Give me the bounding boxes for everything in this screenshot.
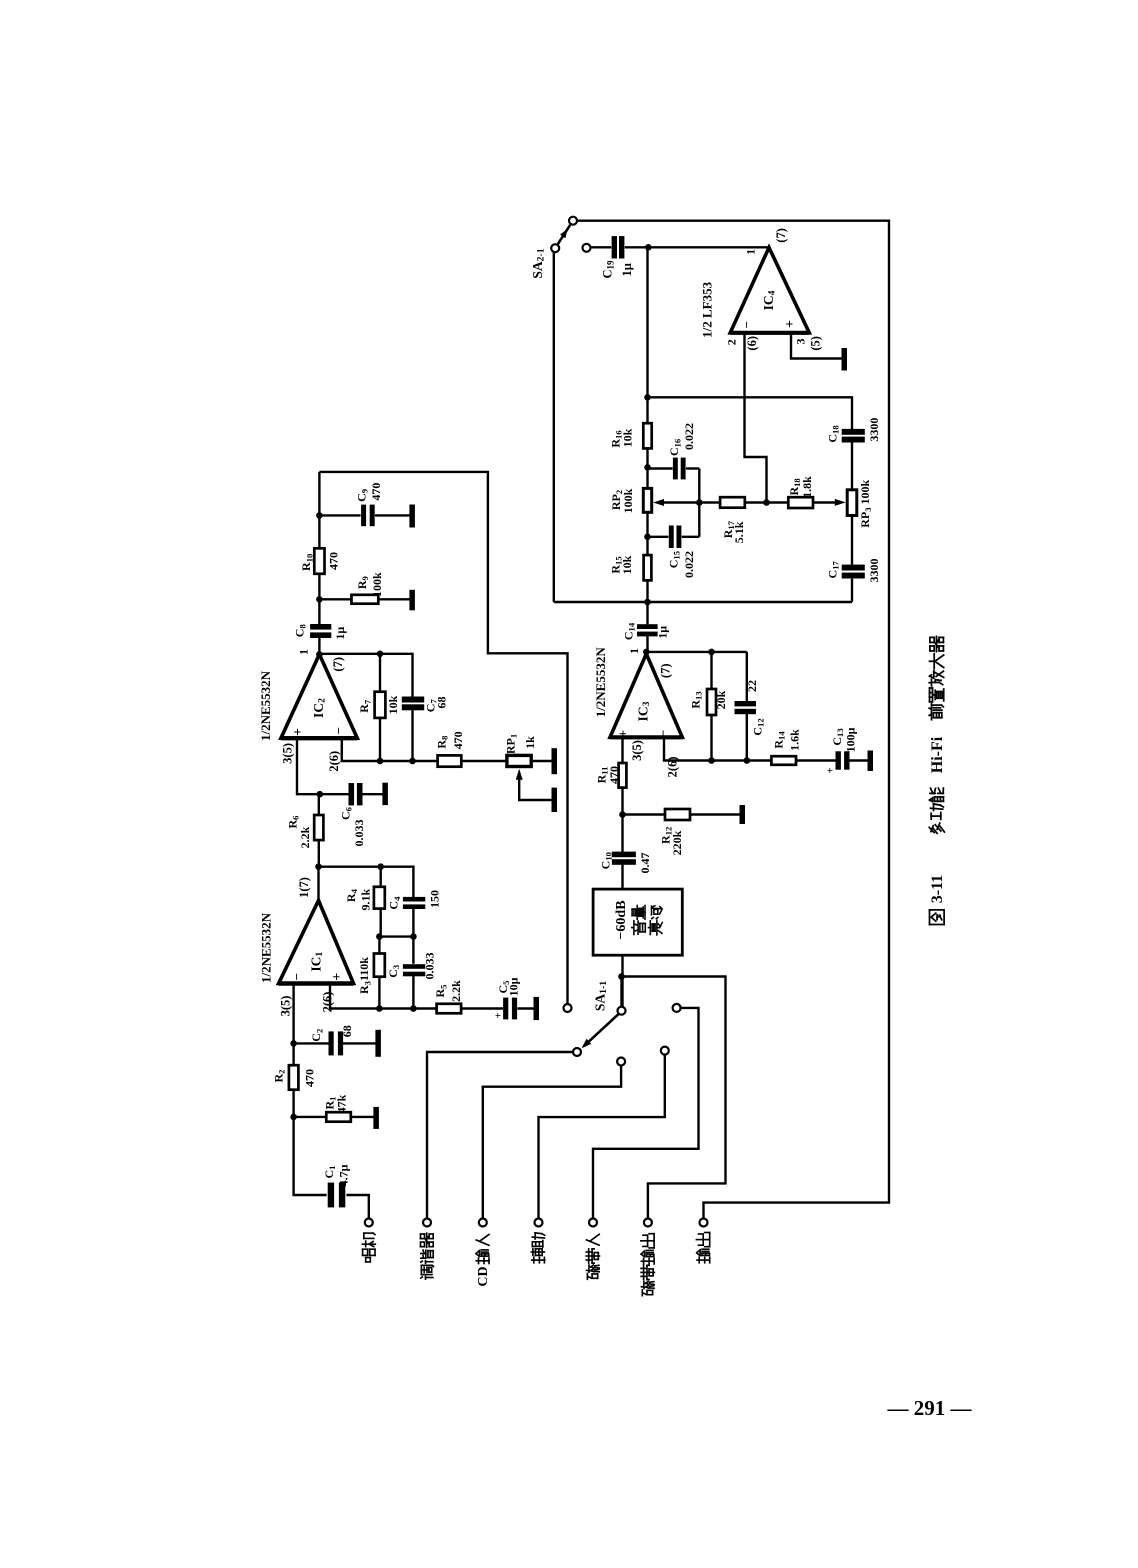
switch SA2-1 [569, 217, 577, 225]
svg-text:1: 1 [627, 648, 641, 654]
svg-text:100k: 100k [621, 488, 635, 513]
switch SA1-1 [618, 1007, 626, 1015]
svg-text:0.033: 0.033 [423, 953, 437, 980]
op-amp IC2 1/2NE5532N [281, 654, 357, 738]
junction C19/IC4 output [645, 244, 652, 251]
junction R12 tap [619, 811, 626, 818]
svg-text:2(6): 2(6) [665, 756, 679, 777]
resistor R11 470 [619, 763, 627, 788]
terminal CD输入 (CD input) [479, 1219, 487, 1227]
svg-text:+: + [824, 767, 836, 773]
ground at R9 [409, 590, 415, 611]
svg-text:2(6): 2(6) [327, 751, 341, 772]
junction IC2 output [316, 651, 323, 658]
junction RP2 wiper [696, 499, 703, 506]
svg-text:1: 1 [743, 249, 757, 255]
junction C3 bottom [410, 1005, 417, 1012]
svg-text:0.022: 0.022 [682, 423, 696, 450]
junction R1 tap [290, 1114, 297, 1121]
wire: IC2 pin3 stub [297, 740, 320, 794]
terminal 磁带输出 (tape out) [644, 1219, 652, 1227]
junction R16/C16 [644, 464, 651, 471]
wire: tape-out branch from attenuator input [623, 977, 726, 1219]
wire: IC1 pin3 column R2 [292, 984, 294, 1066]
wire: IC2 output rail to R7/C7 [319, 654, 412, 697]
capacitor C5 10u [503, 998, 508, 1020]
svg-text:(7): (7) [658, 664, 672, 679]
wire: IC4 inverting input (pin2) to R17/R18 node [745, 333, 767, 503]
wire: phono input through C1 [294, 1117, 327, 1195]
svg-text:0.47: 0.47 [638, 853, 652, 874]
capacitor C18 3300 [842, 429, 865, 435]
svg-text:5.1k: 5.1k [732, 521, 746, 543]
resistor R5 2.2k [437, 1004, 462, 1014]
wire: IC1 pin2 rail with R5/C5 [330, 984, 437, 1009]
capacitor C10 0.47 [612, 852, 636, 858]
capacitor C8 1u [310, 624, 331, 630]
junction IC2 pin3/C6/R6 [317, 791, 324, 798]
wire: ladder column C19-junction down to bottom rail [646, 247, 648, 423]
wire: RP1 wiper to ground [519, 778, 551, 801]
resistor R1 47k [326, 1112, 351, 1122]
capacitor C1 4.7u [328, 1183, 334, 1208]
terminal 辅助 (aux) [535, 1219, 543, 1227]
wire: R10 column and C9/R9 taps [318, 472, 320, 548]
junction R9 tap [316, 596, 323, 603]
terminal 输出 (output) [700, 1219, 708, 1227]
svg-text:3300: 3300 [867, 559, 881, 583]
svg-text:1: 1 [297, 649, 311, 655]
ground at R1 [373, 1107, 379, 1129]
wire: C2 row to ground [294, 1042, 330, 1044]
svg-text:2: 2 [724, 339, 738, 345]
wire: rumble filter loop to SA1-1 contact [319, 472, 567, 1004]
wire: RP2 wiper to R17 [661, 501, 699, 503]
ground at C2 [375, 1030, 381, 1057]
ground at C5 [534, 997, 540, 1020]
svg-text:1/2NE5532N: 1/2NE5532N [258, 912, 273, 983]
figure title 图3-11 多功能Hi-Fi前置放大器 [930, 910, 945, 925]
junction C2 tap [290, 1040, 297, 1047]
junction R3 bottom [376, 1005, 383, 1012]
svg-text:1k: 1k [523, 736, 537, 749]
wire: R7 legs [379, 654, 381, 692]
wire: C16/C15 right vertical [698, 469, 700, 537]
wire: SA1-1 common stub [620, 977, 622, 1007]
svg-text:−: − [330, 727, 345, 734]
junction C4/C3 mid rail right [410, 933, 417, 940]
junction R7 bottom [377, 758, 384, 765]
arrow on RP1 wiper [516, 769, 523, 780]
wire: R4 legs [380, 867, 382, 887]
wire: C6 row [320, 793, 349, 795]
wire: IC1 output rail to R4/C4 [319, 867, 414, 898]
svg-text:470: 470 [303, 1069, 317, 1087]
terminal 唱机 (phono) [365, 1219, 373, 1227]
svg-text:470: 470 [451, 731, 465, 749]
svg-text:68: 68 [435, 697, 449, 709]
svg-text:470: 470 [369, 483, 383, 501]
svg-text:1/2NE5532N: 1/2NE5532N [593, 647, 608, 718]
wire: CD terminal to SA1-1 contact [483, 1065, 621, 1218]
wire: bottom rail (tone network common) [554, 601, 852, 603]
resistor R18 1.8k [788, 497, 813, 508]
wire: top feedback rail to C18 [648, 397, 853, 429]
svg-text:−: − [739, 321, 754, 328]
wire: R13 legs [710, 652, 712, 689]
svg-text:−: − [288, 973, 303, 980]
svg-text:+: + [291, 728, 306, 736]
capacitor C9 470 [361, 505, 366, 527]
junction R13 top [708, 649, 715, 656]
wire: C8 column [318, 599, 320, 625]
svg-text:+: + [330, 973, 345, 981]
resistor R15 10k [644, 555, 652, 580]
capacitor C19 1u [612, 236, 617, 258]
capacitor C7 68 [402, 697, 424, 703]
potentiometer RP3 100k [847, 490, 857, 516]
svg-text:4.7μ: 4.7μ [337, 1164, 351, 1186]
wire: IC2 pin2 feedback rail [342, 740, 438, 761]
svg-text:68: 68 [340, 1025, 354, 1037]
junction R6/IC1 output [315, 863, 322, 870]
svg-text:220k: 220k [670, 830, 684, 855]
svg-text:2.2k: 2.2k [449, 980, 463, 1002]
op-amp IC3 1/2NE5532N [610, 654, 682, 738]
svg-text:1/2NE5532N: 1/2NE5532N [258, 670, 273, 741]
ground at R12 [740, 805, 746, 824]
svg-text:2.2k: 2.2k [298, 826, 312, 848]
wire: tape-in terminal to SA1-1 contact [593, 1008, 699, 1219]
potentiometer RP1 1k [507, 755, 531, 766]
svg-text:1.8k: 1.8k [800, 476, 814, 498]
svg-text:1(7): 1(7) [297, 877, 311, 898]
op-amp IC1 1/2NE5532N [279, 900, 354, 983]
wire: R12 row to ground [623, 813, 666, 815]
svg-text:22: 22 [745, 680, 759, 692]
wire: C9 row to ground [319, 514, 360, 516]
junction R4 top [377, 863, 384, 870]
resistor R10 470 [314, 548, 324, 574]
junction C7 bottom [409, 758, 416, 765]
svg-text:150: 150 [428, 890, 442, 908]
svg-text:— 291 —: — 291 — [887, 1396, 973, 1420]
svg-text:0.022: 0.022 [682, 551, 696, 578]
arrow into RP3 wiper [835, 499, 846, 506]
svg-text:10k: 10k [386, 695, 400, 714]
wire: C3 legs [412, 937, 414, 964]
resistor R8 470 [438, 755, 462, 766]
svg-text:(5): (5) [809, 336, 823, 351]
junction RP2/C15 [644, 534, 651, 541]
junction R4/R3 mid rail left [376, 933, 383, 940]
svg-text:+: + [616, 730, 631, 738]
op-amp IC4 1/2 LF353 [730, 248, 809, 333]
junction R17/R18 [763, 499, 770, 506]
terminal 调谐器 (tuner) [423, 1219, 431, 1227]
svg-text:3: 3 [794, 339, 808, 345]
capacitor C6 0.033 [349, 783, 355, 805]
capacitor C3 0.033 [403, 964, 425, 969]
capacitor C14 1u [637, 624, 658, 629]
wire: R18 to RP3 wiper arrow [813, 501, 838, 503]
ground at IC4 pin3 [842, 348, 848, 371]
resistor R12 220k [665, 809, 690, 820]
arrow into RP2 wiper [653, 499, 664, 506]
svg-text:20k: 20k [714, 690, 728, 709]
resistor R3 110k [374, 954, 385, 977]
junction C9 tap [316, 512, 323, 519]
resistor R14 1.6k [771, 756, 796, 765]
capacitor C15 0.022 [669, 526, 674, 549]
junction R7 top [377, 651, 384, 658]
resistor R16 10k [643, 423, 651, 448]
svg-text:3(5): 3(5) [630, 740, 644, 761]
wire: C18 to RP3 [851, 442, 853, 490]
svg-text:R3110k: R3110k [357, 957, 372, 994]
svg-text:−: − [655, 730, 670, 737]
svg-text:470: 470 [326, 552, 340, 570]
wire: C16 row [648, 467, 673, 469]
svg-text:100k: 100k [370, 572, 384, 597]
capacitor C13 100u [836, 751, 841, 769]
svg-text:10k: 10k [620, 555, 634, 574]
svg-text:3(5): 3(5) [280, 743, 294, 764]
wire: C15 row [648, 536, 669, 538]
resistor R6 2.2k [314, 815, 323, 840]
wire: aux terminal to SA1-1 contact [539, 1055, 665, 1219]
svg-text:1μ: 1μ [656, 626, 670, 639]
svg-text:100μ: 100μ [844, 727, 858, 752]
junction IC3 output [643, 649, 650, 656]
ground at RP1 wiper [552, 788, 558, 812]
svg-text:1μ: 1μ [620, 263, 634, 276]
wire: output bus from SA2-1 to 输出 terminal [577, 221, 889, 1219]
terminal 磁带入 (tape in) [589, 1219, 597, 1227]
svg-text:3-11: 3-11 [928, 875, 945, 903]
attenuator box -60dB [593, 889, 682, 955]
switch SA1-1 lower contact [617, 1058, 625, 1066]
capacitor C2 68 [329, 1031, 334, 1055]
svg-text:9.1k: 9.1k [359, 889, 373, 911]
wire: IC1 apex stub [317, 867, 319, 901]
resistor R9 100k [352, 595, 379, 604]
wire: feedback mid rail [379, 935, 413, 937]
resistor R2 470 [289, 1065, 299, 1090]
svg-text:(7): (7) [331, 657, 345, 672]
svg-text:+: + [783, 320, 798, 328]
wire: R9 row to ground [319, 598, 351, 600]
wire: IC3 pin3 column R11/C10/attenuator [621, 737, 623, 763]
resistor R7 10k [375, 692, 386, 718]
svg-text:1.6k: 1.6k [788, 729, 802, 751]
wire: RP3 to C17 [851, 516, 853, 565]
svg-text:RP3 100k: RP3 100k [858, 479, 873, 527]
junction bottom rail C14 [644, 599, 651, 606]
wire: IC3 pin2 feedback rail [664, 737, 771, 760]
wire: R17 to R18 through node [699, 501, 720, 503]
wire: C17 to bottom rail leg [851, 579, 853, 602]
capacitor C12 22 [735, 701, 757, 706]
wire: R3 legs [378, 937, 380, 954]
svg-text:−60dB: −60dB [614, 900, 629, 939]
svg-text:+: + [493, 1012, 505, 1018]
capacitor C4 150 [403, 897, 425, 902]
svg-text:1/2 LF353: 1/2 LF353 [699, 281, 714, 337]
svg-text:CD: CD [475, 1266, 490, 1286]
junction C12 bottom [744, 757, 751, 764]
wire: C12 legs [746, 652, 748, 702]
svg-text:Hi-Fi: Hi-Fi [928, 736, 945, 773]
svg-text:470: 470 [607, 766, 621, 784]
svg-text:(7): (7) [774, 228, 788, 243]
ground at C9 [409, 505, 415, 528]
resistor R13 20k [707, 689, 716, 715]
wire: R6 column [318, 794, 320, 815]
capacitor C16 0.022 [673, 458, 678, 480]
wire: left bus from SA2-1 lower contact down to bottom rail [553, 252, 555, 602]
svg-text:10k: 10k [621, 428, 635, 447]
junction tape-out tap [618, 973, 625, 980]
wire: tuner terminal to SA1-1 contact [427, 1052, 573, 1219]
resistor R17 5.1k [720, 497, 745, 508]
ground at C6 [382, 783, 388, 805]
svg-text:3300: 3300 [867, 418, 881, 442]
ground at end of IC2 feedback rail [552, 748, 558, 774]
resistor R4 9.1k [374, 887, 385, 909]
ground at C13 [868, 751, 874, 772]
junction R13 bottom [708, 757, 715, 764]
wire: C14 vertical between bottom rail and IC3 output [646, 602, 648, 624]
svg-text:2(6): 2(6) [321, 992, 335, 1013]
capacitor C17 3300 [842, 565, 865, 571]
potentiometer RP2 100k [643, 488, 651, 512]
svg-text:1μ: 1μ [333, 627, 347, 640]
svg-text:(6): (6) [745, 336, 759, 351]
wire: IC3 output rail to R13/C12 [646, 651, 747, 653]
svg-text:3(5): 3(5) [278, 996, 292, 1017]
svg-text:0.033: 0.033 [352, 820, 366, 847]
junction node A tone rail [644, 394, 651, 401]
wire: IC4 pin3 to ground [791, 333, 842, 359]
svg-text:47k: 47k [335, 1094, 349, 1113]
svg-text:10μ: 10μ [506, 977, 520, 996]
wire: SA2-1 contact to C19 to IC4 output [590, 246, 611, 248]
wire: R1 row to ground [294, 1116, 327, 1118]
